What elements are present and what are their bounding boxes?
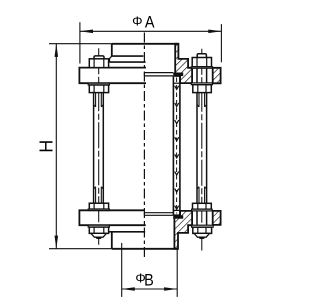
bottom spigot wall left view — [111, 232, 113, 249]
top spigot ring fillet left view — [110, 56, 112, 62]
bolt B1 end tip — [96, 237, 101, 239]
gasket seat lines top — [144, 73, 173, 76]
top spigot wall left view — [111, 44, 113, 56]
dimension PhiA arrow right — [208, 30, 221, 34]
bottom flange plate left view — [79, 210, 145, 225]
bolt B2 end tip — [199, 237, 204, 239]
bolt B1 centerline — [98, 48, 100, 245]
bolt B2 nut top — [192, 58, 211, 67]
glass tube wall right — [179, 76, 181, 215]
bolt B1 thread inner lines top — [94, 93, 104, 107]
top flange hatched section right part — [213, 68, 221, 84]
bolt B1 washer under top flange — [88, 83, 109, 85]
dimension H line — [55, 44, 57, 249]
bolt B1 nut under top flange — [89, 85, 108, 93]
bolt B1 thread inner lines bottom — [94, 187, 104, 204]
dimension PhiA line — [80, 30, 222, 32]
bolt B1 cap top — [94, 56, 104, 59]
bolt B1 stud outline — [94, 93, 104, 204]
bottom port mouth line — [112, 248, 178, 250]
bolt B2 thread inner lines bottom — [197, 187, 207, 204]
glass tube centerline — [176, 78, 178, 214]
bolt B1 end cap bottom — [91, 233, 106, 237]
bolt B2 cap top — [197, 54, 206, 58]
bolt B2 end cap bottom — [194, 233, 209, 237]
bolt B1 washer above bottom flange — [88, 209, 109, 210]
bolt B2 washer on top flange — [191, 67, 212, 68]
dimension PhiA extension line left — [79, 22, 81, 63]
bolt B2 nut under top flange — [193, 85, 212, 93]
bolt B1 nut under bottom flange — [89, 227, 108, 233]
bolt B2 washer above bottom flange — [192, 209, 213, 211]
gasket bottom (section, filled) — [173, 215, 183, 218]
dimension H extension line bottom — [49, 248, 112, 250]
gasket top (section, filled) — [173, 73, 183, 77]
bolt B1 nut above bottom flange — [89, 203, 108, 209]
bolt B1 nut top — [89, 59, 108, 68]
glass tube tick bottom — [173, 209, 180, 211]
bolt B2 stud outline — [197, 68, 207, 225]
gasket seat lines bottom — [144, 213, 173, 216]
dimension PhiB line — [122, 288, 178, 290]
svg-text:Φ: Φ — [132, 13, 142, 28]
dimension H arrow top — [55, 44, 59, 57]
bolt B2 centerline — [201, 49, 203, 251]
dimension PhiB arrow right — [164, 287, 177, 291]
dimension PhiB extension line left — [121, 243, 123, 297]
top spigot ring line left view — [112, 55, 144, 57]
svg-text:H: H — [36, 140, 56, 153]
top port mouth line — [112, 43, 179, 45]
top boss line left view — [110, 61, 146, 63]
dimension PhiB extension line right — [176, 250, 178, 297]
top flange hatched section left part with spigot and boss — [175, 44, 192, 83]
dimension PhiB arrow left — [122, 287, 135, 291]
bottom flange hatched section left part with boss and spigot — [174, 211, 192, 249]
dimension PhiA extension line right — [220, 24, 222, 62]
dimension H extension line top — [49, 43, 112, 45]
glass tube tick top — [173, 82, 180, 84]
glass symbol triangles — [175, 86, 179, 210]
bolt B2 nut above bottom flange — [193, 203, 212, 209]
bolt B2 washer under bottom flange — [192, 225, 214, 227]
bottom boss line left view — [109, 231, 145, 233]
bolt B2 nut under bottom flange — [193, 227, 212, 233]
bolt B2 washer under top flange — [191, 83, 212, 85]
glass tube wall left — [172, 76, 174, 215]
dimension PhiA arrow left — [80, 30, 93, 34]
bolt B1 washer under bottom flange — [88, 225, 109, 227]
dimension H arrow bottom — [55, 236, 59, 249]
bottom flange hatched section right part — [213, 211, 221, 225]
bolt B2 thread inner lines top — [197, 93, 207, 107]
svg-text:B: B — [144, 271, 154, 289]
svg-text:A: A — [145, 13, 155, 31]
main vertical centerline — [143, 33, 145, 258]
top flange plate left view — [79, 68, 146, 84]
